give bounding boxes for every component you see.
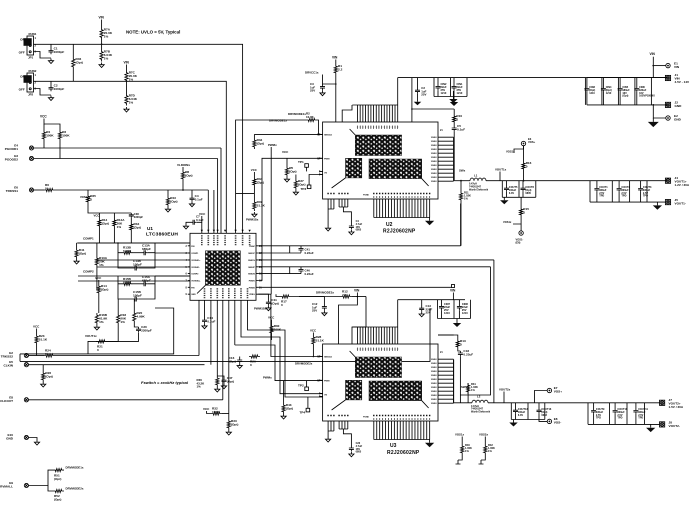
svg-text:VOS1x: VOS1x — [503, 220, 512, 224]
capacitor C7 — [191, 220, 196, 225]
svg-text:C13A680pF: C13A680pF — [142, 244, 151, 252]
wire — [118, 253, 133, 268]
wire — [147, 243, 155, 253]
svg-text:VOSNS1+: VOSNS1+ — [191, 260, 201, 262]
wire — [602, 92, 604, 105]
wire U3 bl wires — [328, 421, 334, 431]
test point TP3 — [301, 185, 311, 191]
wire — [312, 346, 314, 357]
svg-text:ON: ON — [20, 75, 25, 79]
capacitor C1 — [49, 47, 65, 55]
svg-text:COMP2: COMP2 — [191, 274, 199, 276]
wire COMP2 to U1 — [155, 275, 190, 277]
wire U3 bl wires 2 — [339, 421, 348, 429]
wire — [437, 90, 439, 96]
resistor R37 — [253, 200, 266, 211]
wire — [593, 403, 595, 409]
turret E1 VIN — [666, 62, 680, 70]
wire — [417, 78, 419, 88]
resistor R43 — [166, 196, 177, 207]
resistor R17 — [280, 295, 291, 307]
wire — [453, 109, 455, 114]
wire — [342, 105, 352, 122]
wire — [535, 391, 548, 403]
svg-text:DRVMODE1x: DRVMODE1x — [269, 119, 287, 123]
svg-text:VSWH: VSWH — [431, 363, 437, 365]
IC U1 top inner pin labels — [202, 235, 250, 245]
junction — [335, 83, 337, 85]
capacitor CIN2 — [436, 84, 441, 90]
wire VOSNS1+ — [155, 252, 190, 254]
wire — [306, 167, 308, 171]
svg-text:VSWH: VSWH — [431, 161, 437, 163]
svg-text:VSWH: VSWH — [431, 403, 437, 405]
junction — [318, 134, 320, 136]
ground — [165, 207, 170, 212]
ground — [34, 440, 39, 445]
wire — [452, 91, 454, 96]
jack J8 VOUT2- — [660, 421, 680, 429]
svg-text:VSWH: VSWH — [431, 375, 437, 377]
wire RUN2 net — [34, 81, 227, 233]
wire — [43, 141, 45, 148]
IC U1 LTC3860EUH outline — [190, 233, 256, 300]
wire VIN rail — [398, 77, 667, 79]
IC U2 VIN pad — [355, 135, 401, 156]
svg-text:DRVMODE1x: DRVMODE1x — [288, 112, 306, 116]
VIN bank cell borders — [585, 78, 651, 105]
wire — [253, 172, 255, 177]
wire — [186, 222, 191, 224]
ground U2 power — [425, 218, 434, 226]
resistor R14B — [98, 218, 109, 228]
resistor R32 — [211, 407, 222, 416]
wire — [515, 414, 517, 420]
turret E6 VOS1- — [519, 231, 523, 235]
resistor R42 — [484, 444, 487, 455]
resistor R26B — [249, 355, 260, 367]
capacitor C2 — [415, 88, 420, 94]
jack J1 VIN — [665, 73, 690, 84]
svg-text:CIN722uF25V1210: CIN722uF25V1210 — [444, 302, 450, 315]
wire — [44, 119, 60, 131]
ground — [94, 325, 99, 330]
wire — [421, 300, 423, 306]
capacitor CIN6 — [634, 87, 639, 92]
connector E10 GND — [6, 433, 28, 441]
ground — [266, 306, 271, 311]
resistor R30 — [270, 324, 282, 335]
capacitor COUT5 — [504, 186, 509, 192]
wire ISNS1 drop — [460, 202, 462, 246]
ground — [450, 99, 458, 106]
wire — [98, 295, 100, 313]
wire — [538, 414, 540, 420]
wire — [397, 78, 399, 105]
wire SMOD2 net — [258, 294, 322, 356]
wire SW2 bus — [459, 356, 461, 402]
resistor R41 — [75, 248, 86, 259]
ground — [189, 202, 194, 207]
svg-text:COMP1: COMP1 — [83, 237, 94, 241]
wire — [286, 158, 288, 166]
wire VIN bank bottom rail — [587, 104, 667, 106]
wire — [441, 310, 443, 318]
resistor R11 — [459, 191, 462, 202]
ground — [453, 320, 461, 327]
svg-text:R13B6.98K: R13B6.98K — [123, 246, 132, 254]
IC U1 top pin ticks — [201, 230, 251, 232]
svg-text:U1: U1 — [147, 226, 153, 231]
wire — [343, 207, 351, 224]
svg-text:VSWH: VSWH — [431, 149, 437, 151]
wire — [197, 222, 202, 233]
wire — [513, 217, 521, 224]
capacitor C18 — [458, 349, 473, 357]
wire — [596, 192, 598, 202]
resistor R51 — [53, 469, 64, 481]
capacitor CIN1 — [452, 84, 457, 90]
wire — [307, 397, 309, 408]
svg-text:VIN: VIN — [650, 52, 656, 56]
wire — [467, 383, 469, 403]
svg-text:TP2: TP2 — [298, 384, 304, 388]
test point TP1 — [298, 160, 308, 167]
ground — [449, 96, 457, 103]
svg-text:R15B6.98K: R15B6.98K — [123, 277, 132, 285]
wire — [271, 335, 273, 340]
wire U3 comb rail up — [398, 300, 465, 327]
wire — [586, 92, 588, 105]
resistor R1 — [334, 64, 342, 75]
capacitor C11 — [266, 298, 279, 306]
wire TP3 net — [309, 175, 323, 186]
wire — [323, 75, 336, 85]
resistor R36 — [216, 376, 219, 387]
ground — [322, 311, 327, 316]
wire — [222, 413, 229, 415]
svg-text:U2: U2 — [386, 222, 393, 228]
ground — [124, 107, 129, 112]
svg-text:M: M — [317, 379, 319, 382]
wire VOUT1 bank bottom rail — [590, 201, 666, 203]
wire — [147, 276, 155, 284]
wire — [118, 284, 133, 299]
wire — [222, 300, 224, 400]
wire U3 SW ladder — [453, 359, 455, 403]
svg-text:M: M — [317, 133, 319, 136]
capacitor C13 — [419, 306, 424, 312]
svg-text:OFF: OFF — [19, 88, 25, 92]
svg-text:E10GND: E10GND — [6, 433, 14, 441]
wire — [133, 252, 142, 254]
wire — [133, 299, 135, 311]
resistor R10 — [453, 114, 463, 124]
wire — [618, 192, 620, 202]
IC U2 left pin stubs — [321, 134, 323, 174]
wire — [98, 280, 100, 284]
svg-text:CIN4(Opt)1210: CIN4(Opt)1210 — [606, 86, 612, 95]
wire PWM2 net — [235, 345, 323, 381]
wire — [126, 65, 128, 71]
CIN7/CIN8 cell borders — [438, 300, 471, 319]
wire — [97, 266, 190, 268]
wire SW2 ladder bus — [453, 360, 455, 403]
svg-text:M: M — [317, 157, 319, 160]
connector E5 CLKIN — [4, 360, 29, 368]
COUT13/COUT16 cell borders — [511, 403, 545, 420]
wire — [107, 333, 139, 341]
turret E8 VOS2- — [547, 417, 561, 425]
wire — [117, 299, 119, 313]
wire — [29, 470, 54, 485]
wire — [72, 44, 74, 57]
svg-text:VCC: VCC — [282, 150, 289, 154]
IC U2 bottom pin pads — [373, 193, 430, 194]
resistor R34 — [253, 177, 264, 187]
wire U2 bottom comb rail — [374, 217, 430, 219]
IC U3 U3 outline — [323, 344, 438, 421]
turret E7 VOS2+ — [547, 386, 562, 394]
svg-text:PWMx: PWMx — [263, 376, 272, 380]
wire — [441, 300, 443, 304]
wire — [640, 192, 642, 202]
capacitor C15A — [142, 275, 151, 287]
wire — [96, 325, 118, 341]
svg-text:U3: U3 — [390, 443, 397, 449]
connector E3 PGOOD2 — [5, 154, 34, 162]
connector E2 TRKSS2 — [1, 351, 29, 359]
IC U1 pad connect line — [197, 285, 205, 293]
svg-text:C15B100pF: C15B100pF — [133, 290, 142, 298]
jumper JP1 — [19, 32, 37, 60]
capacitor COUT3 — [638, 187, 643, 192]
capacitor C38 — [129, 213, 134, 218]
wire — [182, 167, 184, 170]
wire — [306, 381, 308, 387]
wire U2 bottom comb — [374, 199, 430, 218]
svg-text:TP1: TP1 — [298, 160, 304, 164]
junction — [523, 180, 525, 182]
wire VOUT1 rail — [486, 180, 667, 182]
capacitor C4B — [349, 224, 354, 229]
svg-text:SMOD#: SMOD# — [324, 356, 333, 358]
capacitor COUT13 — [513, 408, 518, 414]
wire — [437, 78, 439, 84]
junction — [460, 180, 462, 182]
wire — [335, 60, 337, 65]
IC U3 bottom pin numbers — [374, 418, 430, 420]
svg-text:C121uF25V: C121uF25V — [312, 302, 318, 313]
ground — [648, 118, 659, 127]
connector E4 PGOOD1 — [5, 144, 34, 152]
ground — [41, 382, 46, 387]
junction — [357, 296, 359, 298]
svg-text:PWM1: PWM1 — [249, 281, 256, 283]
wire — [460, 267, 490, 395]
wire — [635, 414, 637, 425]
wire feedback net — [20, 308, 174, 354]
ground U3 power — [425, 440, 434, 448]
wire — [461, 437, 463, 445]
wire U2 comb rail — [352, 104, 397, 106]
IC U2 bl pins — [327, 193, 334, 194]
wire VOSNS1- — [97, 259, 190, 261]
IC U2 top pin marks — [357, 126, 398, 130]
ground half 2 — [479, 460, 484, 464]
wire SNSD2 net — [258, 259, 494, 261]
svg-text:DRVMODE2x: DRVMODE2x — [316, 291, 334, 295]
svg-text:VSWH: VSWH — [431, 367, 437, 369]
svg-text:VSWH: VSWH — [431, 399, 437, 401]
IC U3 left pin stubs — [321, 356, 323, 396]
ground — [48, 96, 53, 101]
wire — [87, 190, 89, 194]
ground — [252, 212, 257, 217]
ground — [183, 224, 188, 229]
wire — [201, 216, 203, 222]
ground half — [456, 460, 461, 464]
svg-text:CIN822uF25V1210: CIN822uF25V1210 — [462, 302, 468, 315]
svg-text:PWM1Bx: PWM1Bx — [246, 218, 259, 222]
wire PWM vertical — [270, 147, 272, 294]
wire sense jog 1 — [289, 246, 291, 253]
svg-text:VOS1x: VOS1x — [455, 433, 464, 437]
svg-text:SMOD#: SMOD# — [324, 134, 333, 136]
svg-text:FIN: FIN — [191, 246, 195, 248]
resistor R13B — [122, 246, 133, 255]
wire VOUT2 rail — [488, 402, 660, 404]
resistor R13A — [95, 256, 107, 267]
wire CLKOUT net — [29, 399, 223, 401]
svg-text:L1: L1 — [474, 174, 478, 178]
svg-text:DRVCC1x: DRVCC1x — [305, 71, 319, 75]
svg-text:VOS2x: VOS2x — [479, 433, 488, 437]
capacitor CIN5 — [618, 87, 623, 92]
resistor R52 — [53, 489, 64, 501]
wire — [596, 181, 598, 187]
svg-text:VCC: VCC — [268, 316, 275, 320]
svg-text:VSWH: VSWH — [431, 391, 437, 393]
wire — [98, 228, 100, 243]
wire — [217, 376, 224, 378]
svg-text:VLDOINx: VLDOINx — [177, 163, 190, 167]
IC U2 left pad — [346, 158, 362, 178]
svg-text:VCC: VCC — [199, 212, 206, 216]
ground — [281, 414, 286, 419]
wire — [96, 267, 98, 291]
wire — [539, 420, 547, 422]
wire — [133, 283, 142, 285]
IC U3 bl pins — [327, 415, 334, 416]
svg-text:VOSNS1-: VOSNS1- — [191, 267, 200, 269]
svg-text:RUN1: RUN1 — [29, 32, 37, 36]
ground — [74, 259, 79, 264]
IC U1 thermal pad — [205, 251, 240, 285]
IC U3 left pin arrows — [319, 355, 321, 397]
ground — [646, 424, 655, 432]
wire — [204, 300, 206, 318]
turret E2 GND — [666, 114, 682, 122]
wire — [343, 429, 351, 446]
wire — [283, 381, 285, 403]
junction — [101, 43, 103, 45]
wire SNSA2 net — [258, 266, 490, 268]
svg-text:VOUT1x: VOUT1x — [495, 168, 507, 172]
wire — [126, 83, 128, 94]
wire — [72, 69, 74, 81]
wire — [614, 403, 616, 409]
svg-text:VSWH: VSWH — [431, 153, 437, 155]
VOUT1 bank cell borders — [612, 181, 647, 202]
wire — [276, 294, 280, 296]
resistor R7B — [100, 50, 113, 62]
svg-text:CIN122uF25V1210: CIN122uF25V1210 — [457, 82, 463, 95]
wire — [59, 141, 61, 159]
wire U3 top comb — [358, 327, 398, 344]
wire U2 top comb — [358, 105, 398, 122]
ground — [226, 430, 231, 435]
svg-text:VCC: VCC — [251, 168, 258, 172]
wire — [520, 224, 522, 231]
wire COMP1 net — [77, 242, 190, 244]
IC U2 U2 outline — [323, 122, 438, 199]
wire U3 bottom comb — [374, 421, 430, 440]
wire — [520, 197, 522, 207]
jack J2 GND — [665, 101, 682, 109]
junction — [652, 104, 654, 106]
wire — [458, 310, 460, 318]
svg-text:VSWH: VSWH — [431, 359, 437, 361]
wire — [458, 455, 462, 460]
ground — [419, 312, 424, 317]
resistor R34B — [130, 222, 141, 232]
wire — [101, 40, 103, 50]
wire — [619, 92, 621, 105]
connector E6 TRKSS1 — [6, 186, 34, 194]
wire — [295, 175, 297, 180]
wire — [514, 146, 524, 153]
resistor R15B — [122, 277, 133, 286]
wire — [506, 192, 508, 198]
ground — [221, 384, 226, 389]
ground — [509, 420, 517, 427]
wire SNS1M stub — [258, 252, 301, 254]
wire PWM1 net — [258, 158, 322, 280]
capacitor COUT1 — [594, 187, 599, 192]
wire — [253, 134, 255, 138]
wire — [36, 345, 38, 356]
wire — [523, 146, 525, 161]
capacitor C13B — [133, 259, 142, 271]
svg-text:M: M — [317, 355, 319, 358]
ground — [293, 190, 298, 195]
wire — [417, 94, 419, 99]
wire — [593, 414, 595, 425]
wire — [460, 204, 462, 246]
svg-text:VSWH: VSWH — [431, 169, 437, 171]
wire — [438, 334, 454, 336]
resistor R33 — [227, 419, 238, 430]
svg-text:CIN222uF25V1210: CIN222uF25V1210 — [441, 82, 447, 95]
svg-text:JP2: JP2 — [28, 92, 34, 96]
wire — [481, 455, 485, 460]
VOUT2 bank cell borders — [610, 403, 645, 425]
wire — [130, 232, 132, 243]
resistor R3 — [58, 130, 70, 141]
svg-text:SWx: SWx — [459, 169, 466, 173]
ground — [326, 437, 331, 442]
